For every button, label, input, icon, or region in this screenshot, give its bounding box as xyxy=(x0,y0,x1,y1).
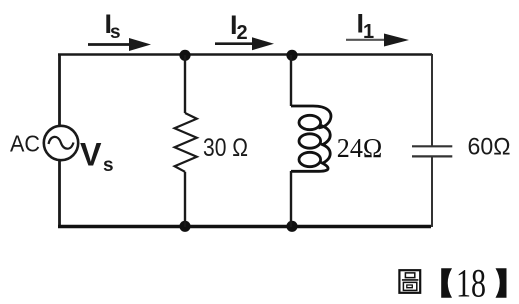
svg-text:s: s xyxy=(103,155,114,176)
node dot bottom-right junction xyxy=(286,221,297,232)
node dot top-left junction xyxy=(179,50,190,61)
capacitor bottom plate xyxy=(412,155,452,157)
wire left vertical lower xyxy=(58,161,61,228)
capacitor top plate xyxy=(412,145,452,147)
svg-text:1: 1 xyxy=(363,21,374,43)
svg-text:s: s xyxy=(110,22,121,43)
resistor 30 ohm branch top lead xyxy=(184,55,186,113)
wire bottom horizontal xyxy=(58,225,431,229)
svg-text:2: 2 xyxy=(237,22,248,44)
svg-text:60Ω: 60Ω xyxy=(468,134,511,161)
node dot bottom-left junction xyxy=(179,221,190,232)
svg-text:AC: AC xyxy=(10,131,40,157)
node dot top-right junction xyxy=(286,50,297,61)
capacitor 60 ohm top lead xyxy=(431,54,433,146)
caption bracket right xyxy=(496,268,507,297)
AC source sine wave xyxy=(49,137,74,149)
inductor 24 ohm bottom lead xyxy=(290,171,292,227)
svg-text:24Ω: 24Ω xyxy=(337,132,383,163)
resistor 30 ohm bottom lead xyxy=(184,172,186,227)
current arrow Is xyxy=(88,43,134,46)
wire left vertical upper xyxy=(58,54,61,127)
svg-text:30 Ω: 30 Ω xyxy=(203,134,248,162)
svg-text:V: V xyxy=(80,137,102,173)
AC source Vs circle xyxy=(44,126,78,160)
current arrow I2 xyxy=(215,42,256,45)
caption glyph Chinese tu (figure) xyxy=(399,270,420,293)
inductor coil xyxy=(291,106,331,171)
wire top horizontal xyxy=(58,53,432,55)
caption bracket left xyxy=(441,268,452,297)
capacitor 60 ohm bottom lead xyxy=(431,157,433,227)
current arrow I1 xyxy=(346,39,388,41)
svg-text:18: 18 xyxy=(456,261,486,304)
inductor 24 ohm top lead xyxy=(290,55,292,106)
resistor 30 ohm zigzag xyxy=(175,113,197,172)
